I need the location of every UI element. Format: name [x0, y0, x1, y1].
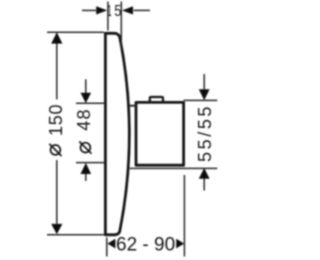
- svg-text:62 - 90: 62 - 90: [116, 235, 175, 256]
- svg-text:1: 1: [107, 2, 111, 20]
- svg-text:48: 48: [74, 108, 94, 131]
- svg-text:5: 5: [114, 3, 121, 21]
- svg-text:55/55: 55/55: [195, 104, 215, 162]
- svg-text:150: 150: [46, 104, 66, 136]
